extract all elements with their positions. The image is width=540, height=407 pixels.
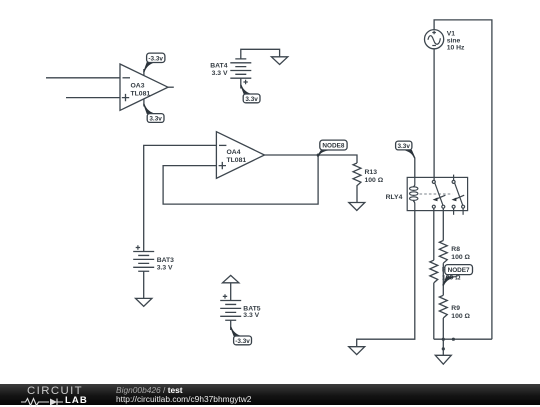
svg-text:3.3v: 3.3v	[245, 96, 258, 103]
wire relay pole1 right contact down	[442, 208, 444, 240]
svg-text:3.3 V: 3.3 V	[157, 265, 173, 272]
ground at relay coil	[349, 347, 365, 355]
wire BAT5 top stub	[230, 283, 232, 301]
ground at R13	[349, 203, 365, 211]
wire OA3 inverting input	[46, 77, 120, 79]
wire OA4 feedback loop	[163, 155, 318, 204]
wire R8 to R9	[442, 263, 444, 295]
ground at BAT3	[136, 298, 152, 306]
wire BAT5 negative stub	[230, 320, 232, 330]
resistor R9	[439, 295, 470, 320]
node 3.3v flag at BAT4	[240, 85, 260, 103]
resistor R8	[439, 241, 470, 264]
svg-text:100 Ω: 100 Ω	[365, 177, 384, 184]
battery BAT3	[133, 245, 174, 271]
ground at bottom rail	[435, 355, 451, 364]
ground above BAT5	[223, 275, 239, 282]
CircuitLab logo	[27, 385, 83, 397]
node junction dot	[442, 347, 445, 350]
svg-text:V1: V1	[447, 30, 456, 37]
node junction NODE8	[317, 154, 320, 157]
node -3.3v flag at OA3	[143, 53, 165, 72]
wire OA4 inverting input to BAT3	[144, 145, 217, 251]
wire ground stub	[442, 349, 444, 355]
svg-text:3.3v: 3.3v	[397, 143, 410, 150]
pin OA3 V- (bottom)	[143, 99, 145, 107]
wire R9 bottom through junction to ground	[442, 318, 444, 349]
node junction dot	[442, 338, 445, 341]
op-amp OA4	[216, 132, 264, 179]
wire R10 bottom to junction	[433, 283, 435, 339]
battery BAT5	[220, 294, 261, 320]
node NODE8 flag	[317, 140, 347, 157]
svg-text:R9: R9	[451, 305, 460, 312]
pin OA3 V+ (top)	[143, 69, 145, 76]
svg-text:3.3v: 3.3v	[149, 116, 162, 123]
resistor R10 (label hidden)	[430, 260, 461, 283]
svg-text:3.3 V: 3.3 V	[243, 312, 259, 319]
wire relay coil to ground	[357, 211, 415, 347]
voltage source V1	[425, 30, 466, 52]
footer url	[116, 394, 251, 404]
svg-text:RLY4: RLY4	[386, 194, 403, 201]
node NODE7 flag	[442, 265, 472, 286]
svg-text:OA4: OA4	[227, 149, 241, 156]
svg-text:TL081: TL081	[227, 157, 247, 164]
wire relay pole1 left contact down	[433, 208, 435, 260]
node junction dot	[452, 338, 455, 341]
svg-text:100 Ω: 100 Ω	[451, 254, 470, 261]
ground at BAT4	[271, 57, 287, 65]
svg-text:-3.3v: -3.3v	[235, 338, 250, 345]
resistor R13	[353, 163, 384, 203]
svg-text:3.3 V: 3.3 V	[212, 70, 228, 77]
wire BAT4 positive stub	[240, 78, 242, 88]
svg-text:NODE7: NODE7	[448, 267, 470, 274]
svg-text:R13: R13	[365, 169, 378, 176]
node 3.3v flag at RLY4 coil	[396, 141, 416, 158]
svg-text:TL081: TL081	[131, 91, 151, 98]
svg-text:BAT4: BAT4	[210, 62, 227, 69]
footer title	[116, 385, 183, 395]
wire V1 top to right rail	[434, 20, 492, 339]
svg-text:100 Ω: 100 Ω	[451, 313, 470, 320]
svg-text:-3.3v: -3.3v	[148, 55, 163, 62]
relay RLY4	[386, 175, 468, 215]
svg-text:sine: sine	[447, 37, 461, 44]
wire OA4 output	[265, 155, 358, 163]
wire OA3 non-inverting input	[66, 97, 120, 99]
wire bottom rail	[434, 338, 492, 340]
svg-text:BAT3: BAT3	[157, 257, 174, 264]
battery BAT4	[210, 49, 279, 84]
wire V1 bottom to relay	[433, 49, 435, 181]
svg-text:10 Hz: 10 Hz	[447, 44, 465, 51]
svg-text:OA3: OA3	[131, 82, 145, 89]
footer bar	[0, 384, 540, 405]
wire BAT3 negative stub	[143, 271, 145, 298]
op-amp OA3	[120, 64, 168, 110]
wire OA3 output stub	[168, 86, 174, 88]
node 3.3v flag at OA3	[143, 104, 164, 123]
svg-text:NODE8: NODE8	[322, 142, 344, 149]
wire flag to relay coil	[414, 158, 416, 178]
svg-text:R8: R8	[451, 246, 460, 253]
node -3.3v flag at BAT5	[230, 327, 252, 345]
